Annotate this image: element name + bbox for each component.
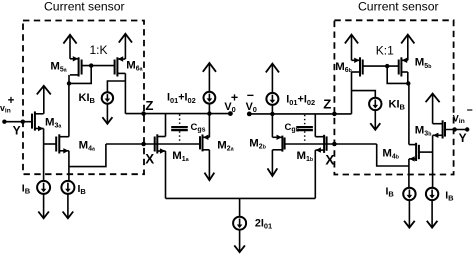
wire M2a drain riser	[208, 114, 210, 138]
wire tail bus	[166, 197, 316, 199]
right current-sensor boundary (dashed box)	[334, 20, 453, 174]
svg-text:V0: V0	[246, 101, 257, 114]
label M3a	[45, 116, 61, 129]
transistor M1a	[155, 134, 166, 153]
VDD arrow above M6b	[345, 35, 358, 61]
label I01+I02 left	[167, 92, 196, 105]
wire M1a source to tail bus	[165, 151, 167, 198]
current source IB left-2	[61, 181, 74, 194]
VDD arrow above M3b	[426, 94, 440, 124]
junction dot M2a drain / I01 source	[207, 111, 211, 115]
label M1a	[172, 150, 188, 163]
wire node X feed left	[69, 144, 106, 167]
VDD arrow above M5b	[401, 35, 414, 61]
label M2a	[217, 139, 233, 152]
label M5a	[50, 60, 66, 73]
svg-text:IB: IB	[78, 183, 87, 196]
label + (Vin+)	[8, 95, 15, 107]
wire KIB stem right	[352, 91, 376, 98]
svg-text:Current sensor: Current sensor	[358, 0, 439, 14]
wire gate bus M5a-M6a	[82, 65, 115, 67]
svg-text:X: X	[325, 153, 334, 168]
wire X bus left	[106, 143, 200, 145]
current source I01+I02 left	[204, 64, 216, 114]
VDD arrow above M5a	[63, 35, 76, 59]
svg-text:K:1: K:1	[376, 44, 394, 58]
IB left-2 sink arrow	[63, 194, 74, 218]
label Cgs right	[285, 122, 300, 134]
M2b tail arrow	[268, 150, 278, 176]
terminal dot V0+	[228, 111, 233, 116]
wire Z bus right	[249, 113, 351, 115]
current source IB left-1	[37, 181, 50, 194]
label M3b	[415, 124, 432, 137]
transistor M4b	[409, 143, 419, 162]
current source KIB left	[102, 92, 113, 103]
svg-text:Vin: Vin	[453, 113, 465, 125]
wire M3b source down to IB	[432, 135, 434, 187]
junction dot M5a/M4a drains	[67, 81, 71, 85]
label IB right-1	[386, 186, 395, 199]
svg-text:M3a: M3a	[45, 116, 61, 129]
svg-text:I01+I02: I01+I02	[286, 94, 315, 107]
VDD arrow above M6a	[119, 34, 132, 59]
svg-text:+: +	[231, 91, 238, 105]
node X left (dot)	[141, 142, 146, 147]
label KIB left	[79, 92, 96, 105]
svg-text:M5b: M5b	[415, 57, 432, 70]
svg-text:Y: Y	[459, 131, 467, 145]
IB right-1 sink arrow	[404, 200, 415, 228]
label + (V0+)	[231, 91, 238, 105]
IB right-2 sink arrow	[427, 200, 438, 228]
node Z left (dot)	[141, 111, 146, 116]
wire M4a source down to IB	[68, 151, 70, 181]
node Z right (dot)	[332, 112, 337, 117]
label Y left	[13, 123, 21, 137]
svg-text:Y: Y	[13, 123, 21, 137]
svg-text:M1b: M1b	[297, 150, 314, 163]
label IB right-2	[445, 190, 454, 203]
right title Current sensor	[358, 0, 439, 14]
wire M4b drain up to M5b	[408, 83, 410, 144]
svg-text:M3b: M3b	[415, 124, 432, 137]
wire M3b gate to input Vin-	[445, 129, 467, 131]
transistor M2b	[272, 135, 284, 152]
transistor M6b	[352, 57, 363, 76]
label 2I01	[255, 217, 272, 230]
current source IB right-1	[403, 188, 415, 200]
wire gate bus M6b-M5b	[363, 65, 399, 67]
left current-sensor boundary (dashed box)	[23, 21, 144, 175]
wire X bus right	[285, 143, 377, 145]
svg-text:M2a: M2a	[217, 139, 233, 152]
label IB left-1	[22, 182, 31, 195]
capacitor Cgs left (parasitic)	[171, 115, 188, 144]
label V0 right	[246, 101, 257, 114]
svg-text:M1a: M1a	[172, 150, 188, 163]
wire M5a diode link (drain to gate bus)	[69, 66, 91, 84]
wire M1b source to tail bus	[314, 150, 316, 198]
supply arrow I01+I02 right	[266, 64, 279, 73]
terminal dot Vin+	[2, 120, 6, 124]
transistor M3a	[32, 111, 44, 131]
transistor M5b	[399, 57, 408, 76]
svg-text:M4b: M4b	[382, 147, 399, 160]
label IB left-2	[78, 183, 87, 196]
svg-text:KIB: KIB	[79, 92, 96, 105]
label X left	[145, 152, 154, 167]
svg-text:KIB: KIB	[389, 98, 406, 111]
svg-text:I01+I02: I01+I02	[167, 92, 196, 105]
IB left-1 sink arrow	[38, 194, 49, 218]
svg-text:−: −	[247, 88, 254, 102]
junction dot M2b drain / I01 source	[270, 112, 274, 116]
svg-text:M5a: M5a	[50, 60, 66, 73]
2I01 sink arrow	[234, 230, 245, 253]
node Y right (dot)	[453, 127, 457, 131]
svg-text:IB: IB	[22, 182, 31, 195]
svg-text:M6a: M6a	[126, 59, 142, 72]
junction dot gate bus right	[385, 64, 389, 68]
terminal dot V0-	[247, 112, 252, 117]
label Z right	[323, 97, 331, 112]
junction dot gate bus left	[89, 63, 93, 67]
node Y left (dot)	[21, 120, 25, 124]
label M4a	[79, 139, 95, 152]
label Z left	[145, 98, 153, 113]
label Y right	[459, 131, 467, 145]
KIB left sink arrow	[102, 104, 112, 124]
M2a tail arrow	[205, 150, 215, 180]
svg-text:IB: IB	[386, 186, 395, 199]
wire M1a drain riser	[165, 114, 167, 137]
wire M4a gate line	[44, 143, 57, 145]
wire KIB stem left	[107, 81, 125, 92]
label M1b	[297, 150, 314, 163]
junction dot M5b/M4b drains	[406, 81, 410, 85]
current source I01+I02 right	[266, 64, 278, 114]
wire input Vin+ to M3a gate	[4, 121, 32, 123]
svg-text:Cgs: Cgs	[191, 122, 206, 134]
svg-text:2I01: 2I01	[255, 217, 272, 230]
label KIB right	[389, 98, 406, 111]
svg-text:Z: Z	[145, 98, 153, 113]
capacitor Cgs right (parasitic)	[296, 115, 313, 143]
current source 2I01	[233, 198, 246, 229]
wire M4a drain up to M5a	[68, 83, 70, 136]
label K:1	[376, 44, 394, 58]
wire M5b diode link (drain to gate bus)	[387, 66, 408, 83]
wire M4b gate line	[419, 151, 433, 153]
svg-text:IB: IB	[445, 190, 454, 203]
svg-text:Cgs: Cgs	[285, 122, 300, 134]
wire node X feed right	[377, 144, 409, 166]
label I01+I02 right	[286, 94, 315, 107]
label - (V0-)	[247, 88, 254, 102]
transistor M5a	[70, 56, 82, 76]
left title Current sensor	[44, 0, 125, 14]
wire M6a drain to node Z	[124, 73, 126, 113]
VDD arrow above M3a	[37, 86, 51, 114]
label X right	[325, 153, 334, 168]
terminal dot Vin-	[465, 127, 469, 131]
current source KIB right	[369, 98, 381, 110]
label vin left	[0, 103, 11, 115]
label 1:K	[90, 43, 108, 57]
node X right (dot)	[332, 142, 337, 147]
wire M2b drain riser	[271, 114, 273, 137]
transistor M1b	[315, 135, 326, 153]
label M6b	[335, 61, 352, 74]
svg-text:1:K: 1:K	[90, 43, 108, 57]
wire M1b drain riser	[314, 114, 316, 137]
label Cgs left	[191, 122, 206, 134]
wire Z bus left	[125, 113, 230, 115]
wire M4b source down to IB	[408, 159, 410, 188]
label M5b	[415, 57, 432, 70]
wire M6b drain to node Z	[351, 72, 353, 114]
label V0 left	[224, 101, 235, 114]
svg-text:M2b: M2b	[249, 137, 266, 150]
svg-text:Current sensor: Current sensor	[44, 0, 125, 14]
label M2b	[249, 137, 266, 150]
svg-text:−: −	[467, 105, 473, 117]
transistor M6a	[115, 56, 126, 76]
label M6a	[126, 59, 142, 72]
wire M3a source down to IB	[43, 129, 45, 182]
KIB right sink arrow	[370, 110, 380, 130]
transistor M2a	[200, 135, 209, 152]
transistor M3b	[433, 120, 445, 138]
label - (Vin-)	[467, 105, 473, 117]
current source IB right-2	[426, 188, 438, 200]
label Vin right	[453, 113, 465, 125]
supply arrow I01+I02 left	[203, 63, 216, 72]
svg-text:M4a: M4a	[79, 139, 95, 152]
transistor M4a	[56, 134, 69, 153]
svg-text:X: X	[145, 152, 154, 167]
svg-text:+: +	[8, 95, 15, 107]
svg-text:Z: Z	[323, 97, 331, 112]
svg-text:M6b: M6b	[335, 61, 352, 74]
label M4b	[382, 147, 399, 160]
